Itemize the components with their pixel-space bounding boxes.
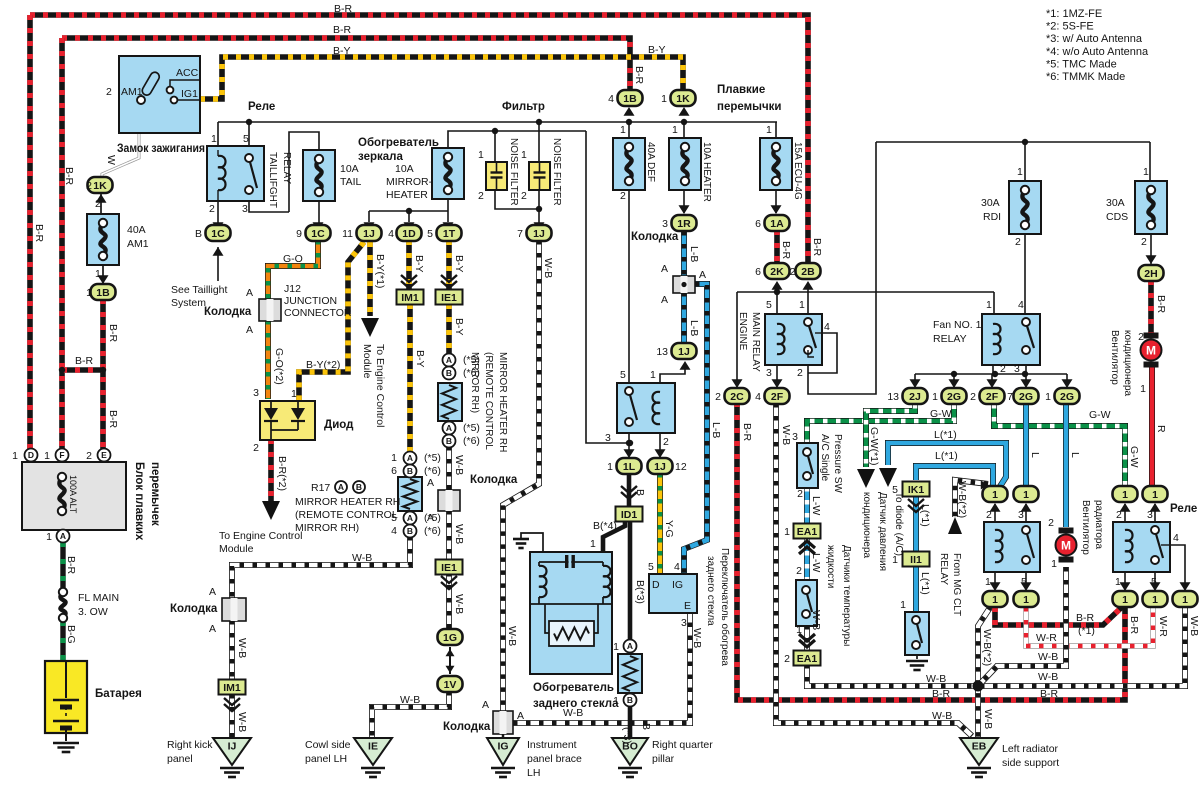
svg-text:Блок плавких: Блок плавких [133, 462, 145, 541]
svg-text:W-B(*2): W-B(*2) [956, 481, 968, 518]
svg-text:M: M [1061, 539, 1071, 553]
svg-text:1J: 1J [363, 228, 375, 240]
svg-text:3: 3 [253, 387, 259, 399]
svg-text:1: 1 [1023, 594, 1029, 606]
svg-text:Диод: Диод [324, 419, 354, 431]
svg-text:(REMOTE CONTROL: (REMOTE CONTROL [483, 352, 494, 450]
svg-text:4: 4 [608, 93, 614, 105]
svg-text:B-R: B-R [811, 238, 823, 257]
svg-text:JUNCTION: JUNCTION [284, 295, 337, 307]
svg-text:To Engine Control: To Engine Control [374, 344, 386, 427]
svg-text:B: B [195, 228, 202, 240]
svg-text:IG: IG [672, 579, 683, 591]
svg-text:4: 4 [674, 561, 680, 573]
svg-text:1: 1 [95, 268, 101, 280]
svg-text:2F: 2F [771, 391, 784, 403]
svg-text:TAIL: TAIL [340, 176, 362, 188]
svg-text:Реле: Реле [248, 101, 275, 113]
svg-text:A: A [661, 263, 668, 275]
svg-text:B-R: B-R [1076, 612, 1095, 624]
svg-text:1: 1 [932, 391, 938, 403]
svg-text:W-B: W-B [691, 628, 703, 648]
svg-text:2: 2 [797, 367, 803, 379]
svg-text:1: 1 [44, 450, 50, 462]
svg-text:2: 2 [478, 190, 484, 202]
svg-text:1: 1 [86, 287, 92, 299]
svg-text:II1: II1 [910, 554, 922, 566]
svg-text:W-B: W-B [780, 425, 792, 445]
svg-text:A: A [661, 294, 668, 306]
svg-text:A: A [482, 699, 489, 711]
svg-text:4: 4 [824, 321, 830, 333]
svg-text:3: 3 [1018, 509, 1024, 521]
svg-text:MIRROR HEATER RH: MIRROR HEATER RH [295, 496, 400, 508]
svg-text:2: 2 [796, 565, 802, 577]
svg-text:B-R: B-R [780, 241, 792, 260]
svg-text:2: 2 [95, 198, 101, 210]
svg-text:B-R: B-R [75, 355, 94, 367]
svg-text:*2: 5S-FE: *2: 5S-FE [1046, 21, 1094, 33]
svg-text:радиатора: радиатора [1093, 500, 1104, 549]
svg-text:5: 5 [1151, 576, 1157, 588]
svg-text:5: 5 [766, 299, 772, 311]
svg-text:A: A [246, 324, 253, 336]
svg-text:2B: 2B [801, 266, 815, 278]
svg-text:4: 4 [1018, 299, 1024, 311]
svg-text:B-Y: B-Y [453, 318, 465, 336]
svg-text:B: B [446, 436, 452, 446]
svg-text:G-O(*2): G-O(*2) [273, 348, 285, 385]
svg-text:W: W [105, 155, 117, 165]
svg-text:2K: 2K [770, 266, 784, 278]
svg-text:W-B: W-B [1038, 651, 1058, 663]
svg-text:AM1: AM1 [127, 238, 149, 250]
svg-text:R17: R17 [311, 482, 330, 494]
svg-text:перемычки: перемычки [717, 101, 781, 113]
svg-text:B-Y: B-Y [413, 255, 425, 273]
svg-text:MAIN RELAY: MAIN RELAY [750, 312, 761, 372]
svg-text:L-W: L-W [810, 553, 822, 572]
svg-text:(REMOTE CONTROL: (REMOTE CONTROL [295, 509, 398, 521]
svg-text:(*5): (*5) [463, 422, 480, 434]
svg-text:IG: IG [497, 741, 508, 753]
svg-text:кондиционера: кондиционера [1122, 330, 1133, 397]
svg-text:W-B: W-B [1038, 671, 1058, 683]
svg-text:W-R: W-R [1157, 616, 1169, 637]
svg-text:5: 5 [427, 228, 433, 240]
svg-text:B-R: B-R [33, 224, 45, 243]
svg-text:10A HEATER: 10A HEATER [701, 142, 712, 202]
svg-text:A: A [427, 512, 434, 524]
svg-text:1: 1 [784, 526, 790, 538]
svg-text:3: 3 [1147, 509, 1153, 521]
svg-text:2G: 2G [1019, 391, 1033, 403]
svg-text:B-R: B-R [932, 688, 951, 700]
svg-text:1D: 1D [402, 228, 416, 240]
svg-text:B(*3): B(*3) [634, 580, 646, 604]
svg-text:W-B: W-B [352, 552, 372, 564]
svg-text:A: A [209, 586, 216, 598]
svg-text:W-B(*2): W-B(*2) [981, 629, 993, 666]
svg-text:G-W: G-W [1089, 409, 1111, 421]
svg-text:Pressure SW: Pressure SW [832, 434, 843, 493]
svg-text:B-R: B-R [1128, 616, 1140, 635]
svg-text:1: 1 [590, 538, 596, 550]
svg-text:Вентилятор: Вентилятор [1080, 500, 1091, 555]
svg-text:2J: 2J [909, 391, 921, 403]
svg-text:B: B [446, 368, 452, 378]
svg-text:6: 6 [391, 465, 397, 477]
svg-text:(*5): (*5) [424, 452, 441, 464]
svg-text:3: 3 [681, 617, 687, 629]
svg-text:4: 4 [388, 228, 394, 240]
svg-text:2: 2 [1048, 517, 1054, 529]
svg-text:A: A [407, 513, 413, 523]
svg-text:W-B: W-B [926, 673, 946, 685]
svg-text:Колодка: Колодка [443, 721, 491, 733]
svg-text:1: 1 [900, 599, 906, 611]
svg-text:B-R(*2): B-R(*2) [276, 456, 288, 491]
svg-text:B-R: B-R [1040, 688, 1059, 700]
svg-text:(*6): (*6) [424, 525, 441, 537]
svg-text:B-Y: B-Y [333, 45, 351, 57]
svg-text:2G: 2G [1060, 391, 1074, 403]
svg-text:1C: 1C [211, 228, 225, 240]
svg-text:G-W(*1): G-W(*1) [868, 427, 880, 466]
svg-text:5: 5 [620, 369, 626, 381]
svg-text:W-B: W-B [236, 712, 248, 732]
svg-text:1: 1 [1122, 594, 1128, 606]
svg-text:D: D [652, 579, 660, 591]
svg-text:A: A [246, 287, 253, 299]
svg-text:RELAY: RELAY [933, 333, 967, 345]
svg-text:1J: 1J [533, 228, 545, 240]
svg-text:E: E [101, 450, 107, 460]
svg-text:1: 1 [766, 124, 772, 136]
svg-text:3: 3 [1014, 363, 1020, 375]
svg-text:ID1: ID1 [621, 509, 638, 521]
svg-text:1: 1 [478, 149, 484, 161]
svg-text:MIRROR RH): MIRROR RH) [469, 352, 480, 413]
svg-text:2: 2 [521, 190, 527, 202]
svg-text:NOISE FILTER: NOISE FILTER [551, 138, 562, 206]
svg-text:2C: 2C [730, 391, 744, 403]
svg-text:IE1: IE1 [441, 562, 457, 574]
svg-text:1L: 1L [623, 461, 636, 473]
svg-text:Реле: Реле [1170, 503, 1197, 515]
svg-text:2: 2 [209, 203, 215, 215]
svg-text:IM1: IM1 [223, 682, 241, 694]
svg-text:2: 2 [1000, 363, 1006, 375]
svg-text:5: 5 [648, 561, 654, 573]
svg-text:2: 2 [1141, 236, 1147, 248]
svg-text:B-Y: B-Y [414, 350, 426, 368]
svg-text:W-B: W-B [236, 638, 248, 658]
svg-text:100A ALT: 100A ALT [68, 475, 78, 514]
svg-text:B-R: B-R [107, 324, 119, 343]
svg-text:1: 1 [1023, 489, 1029, 501]
svg-text:M: M [1146, 344, 1156, 358]
svg-text:7: 7 [517, 228, 523, 240]
svg-text:IE1: IE1 [441, 292, 457, 304]
svg-text:1T: 1T [443, 228, 456, 240]
svg-text:Колодка: Колодка [631, 231, 679, 243]
svg-text:L(*1): L(*1) [935, 450, 958, 462]
svg-text:2: 2 [797, 488, 803, 500]
svg-text:L(*1): L(*1) [919, 572, 931, 595]
svg-text:IM1: IM1 [401, 292, 419, 304]
svg-text:13: 13 [887, 391, 899, 403]
svg-text:Module: Module [361, 344, 373, 379]
svg-text:CDS: CDS [1106, 211, 1128, 223]
svg-text:7: 7 [1007, 391, 1013, 403]
svg-text:Переключатель обогрева: Переключатель обогрева [719, 548, 731, 666]
svg-text:1: 1 [661, 93, 667, 105]
svg-text:*1: 1MZ-FE: *1: 1MZ-FE [1046, 8, 1102, 20]
svg-text:2: 2 [253, 442, 259, 454]
svg-text:1R: 1R [677, 218, 691, 230]
svg-text:2: 2 [1015, 236, 1021, 248]
svg-text:1: 1 [1152, 489, 1158, 501]
svg-text:1G: 1G [443, 632, 457, 644]
svg-text:J12: J12 [284, 283, 301, 295]
svg-text:B-R: B-R [633, 66, 645, 85]
svg-text:W-B: W-B [506, 626, 518, 646]
svg-text:1: 1 [1115, 576, 1121, 588]
svg-text:Right quarter: Right quarter [652, 739, 713, 751]
svg-text:3: 3 [242, 203, 248, 215]
svg-text:*3: w/ Auto Antenna: *3: w/ Auto Antenna [1046, 33, 1143, 45]
svg-text:3: 3 [605, 432, 611, 444]
svg-text:2H: 2H [1144, 268, 1157, 280]
svg-text:Колодка: Колодка [470, 474, 518, 486]
svg-text:перемычек: перемычек [149, 462, 161, 526]
svg-text:40A DEF: 40A DEF [645, 142, 656, 182]
svg-text:2: 2 [663, 436, 669, 448]
svg-text:1: 1 [620, 124, 626, 136]
svg-text:B-Y: B-Y [453, 255, 465, 273]
svg-text:A: A [699, 269, 706, 281]
svg-text:1C: 1C [311, 228, 325, 240]
svg-text:A: A [60, 531, 66, 541]
svg-text:L-W: L-W [810, 496, 822, 515]
svg-text:40A: 40A [127, 224, 146, 236]
svg-text:MIRROR HEATER RH: MIRROR HEATER RH [497, 352, 508, 452]
svg-text:11: 11 [342, 228, 353, 240]
svg-text:1: 1 [985, 576, 991, 588]
svg-text:To diode (A/C): To diode (A/C) [893, 492, 904, 556]
svg-text:A/C Single: A/C Single [819, 434, 830, 482]
svg-text:2F: 2F [986, 391, 999, 403]
svg-text:ENGINE: ENGINE [737, 312, 748, 351]
svg-text:EB: EB [972, 741, 987, 753]
svg-text:1: 1 [796, 624, 802, 636]
svg-text:Плавкие: Плавкие [717, 84, 765, 96]
svg-text:*6: TMMK Made: *6: TMMK Made [1046, 71, 1125, 83]
svg-text:TAILLIFGHT: TAILLIFGHT [267, 152, 278, 208]
svg-text:To Engine Control: To Engine Control [219, 530, 302, 542]
svg-text:2: 2 [1138, 331, 1144, 343]
svg-text:30A: 30A [981, 197, 1000, 209]
svg-text:Y-G: Y-G [663, 520, 675, 538]
svg-text:A: A [517, 710, 524, 722]
svg-text:R: R [1155, 425, 1167, 433]
svg-text:L(*1): L(*1) [919, 504, 931, 527]
svg-text:B-R: B-R [334, 3, 353, 15]
svg-text:Fan NO. 1: Fan NO. 1 [933, 319, 982, 331]
svg-text:Right kick: Right kick [167, 739, 213, 751]
svg-text:B: B [640, 723, 652, 730]
svg-text:E: E [684, 600, 691, 612]
svg-text:A: A [338, 482, 344, 492]
svg-text:1J: 1J [678, 346, 690, 358]
svg-text:1V: 1V [444, 679, 457, 691]
svg-text:See Taillight: See Taillight [171, 284, 228, 296]
svg-text:From MG CLT: From MG CLT [951, 553, 962, 616]
svg-text:A: A [627, 641, 633, 651]
svg-text:Instrument: Instrument [527, 739, 577, 751]
svg-text:A: A [446, 423, 452, 433]
svg-text:(*6): (*6) [424, 465, 441, 477]
svg-text:5: 5 [1021, 576, 1027, 588]
svg-text:W-B: W-B [453, 594, 465, 614]
svg-text:1: 1 [12, 450, 18, 462]
svg-text:5: 5 [243, 133, 249, 145]
svg-text:pillar: pillar [652, 753, 675, 765]
svg-text:B-R: B-R [741, 423, 753, 442]
svg-text:*4: w/o Auto Antenna: *4: w/o Auto Antenna [1046, 46, 1149, 58]
svg-text:W-B: W-B [563, 707, 583, 719]
svg-text:W-B: W-B [542, 258, 554, 278]
svg-text:B-G: B-G [65, 625, 77, 644]
svg-text:System: System [171, 297, 206, 309]
svg-text:L-B: L-B [710, 422, 722, 438]
svg-text:2: 2 [986, 509, 992, 521]
svg-text:2: 2 [86, 180, 92, 192]
svg-text:2G: 2G [947, 391, 961, 403]
svg-text:13: 13 [656, 346, 668, 358]
svg-text:1: 1 [613, 641, 619, 653]
svg-text:1: 1 [1140, 383, 1146, 395]
svg-text:Датчик давления: Датчик давления [877, 492, 888, 571]
svg-text:10A: 10A [395, 163, 414, 175]
svg-text:CONNECTOR: CONNECTOR [284, 307, 352, 319]
svg-text:2: 2 [784, 653, 790, 665]
svg-text:Колодка: Колодка [170, 603, 218, 615]
svg-text:B: B [356, 482, 362, 492]
svg-text:1: 1 [1152, 594, 1158, 606]
svg-text:1: 1 [672, 124, 678, 136]
svg-text:15A ECU-4G: 15A ECU-4G [792, 142, 803, 200]
svg-text:1: 1 [391, 452, 397, 464]
svg-text:1: 1 [1182, 594, 1188, 606]
svg-text:B-Y(*1): B-Y(*1) [374, 254, 386, 288]
svg-text:W-B: W-B [810, 610, 822, 630]
svg-text:(*1): (*1) [1078, 625, 1095, 637]
svg-text:Обогреватель: Обогреватель [533, 682, 614, 694]
svg-text:W-B: W-B [453, 524, 465, 544]
svg-text:4: 4 [1173, 532, 1179, 544]
svg-text:Cowl side: Cowl side [305, 739, 351, 751]
svg-text:1: 1 [613, 695, 619, 707]
svg-text:Обогреватель: Обогреватель [358, 137, 439, 149]
svg-text:1A: 1A [770, 218, 784, 230]
svg-text:B(*4): B(*4) [593, 520, 617, 532]
svg-text:1: 1 [992, 489, 998, 501]
svg-text:1: 1 [650, 369, 656, 381]
svg-text:W-B: W-B [982, 709, 994, 729]
svg-text:IE: IE [368, 741, 378, 753]
svg-text:RELAY: RELAY [938, 553, 949, 585]
svg-text:B-Y: B-Y [648, 44, 666, 56]
svg-text:6: 6 [755, 218, 761, 230]
svg-text:Батарея: Батарея [95, 688, 142, 700]
svg-text:IG1: IG1 [181, 88, 198, 100]
svg-text:panel LH: panel LH [305, 753, 347, 765]
svg-text:1: 1 [799, 299, 805, 311]
svg-text:Колодка: Колодка [204, 306, 252, 318]
svg-text:30A: 30A [1106, 197, 1125, 209]
svg-text:1B: 1B [96, 287, 110, 299]
svg-text:B-R: B-R [1155, 295, 1167, 314]
svg-text:1: 1 [521, 149, 527, 161]
svg-text:F: F [59, 450, 64, 460]
svg-text:IK1: IK1 [908, 484, 925, 496]
svg-text:*5: TMC Made: *5: TMC Made [1046, 58, 1117, 70]
svg-text:Вентилятор: Вентилятор [1109, 330, 1120, 385]
svg-text:A: A [446, 355, 452, 365]
svg-text:Фильтр: Фильтр [502, 101, 545, 113]
svg-text:MIRROR-: MIRROR- [386, 176, 433, 188]
svg-text:2: 2 [1116, 509, 1122, 521]
svg-text:A: A [209, 623, 216, 635]
svg-text:3: 3 [662, 218, 668, 230]
svg-text:L(*1): L(*1) [934, 429, 957, 441]
svg-text:W-B: W-B [453, 455, 465, 475]
svg-text:1K: 1K [93, 180, 107, 192]
svg-text:кондиционера: кондиционера [861, 492, 872, 559]
svg-text:G-W: G-W [930, 408, 952, 420]
svg-text:L: L [1029, 452, 1041, 458]
svg-text:Датчики температуры: Датчики температуры [841, 545, 852, 646]
svg-text:side support: side support [1002, 757, 1059, 769]
svg-text:(*3): (*3) [621, 727, 633, 744]
svg-text:B-R: B-R [65, 556, 77, 575]
svg-text:L-B: L-B [688, 320, 700, 336]
svg-text:2: 2 [715, 391, 721, 403]
svg-text:B-R: B-R [63, 167, 75, 186]
svg-text:MIRROR RH): MIRROR RH) [295, 522, 359, 534]
svg-text:6: 6 [755, 266, 761, 278]
svg-text:panel brace: panel brace [527, 753, 582, 765]
svg-text:2: 2 [106, 86, 112, 98]
svg-text:3: 3 [792, 431, 798, 443]
svg-text:RELAY: RELAY [281, 152, 292, 184]
svg-text:2: 2 [620, 190, 626, 202]
svg-text:G-W: G-W [1128, 446, 1140, 468]
svg-text:заднего стекла: заднего стекла [705, 556, 716, 626]
svg-text:12: 12 [675, 461, 687, 473]
svg-text:2: 2 [790, 266, 796, 278]
svg-text:NOISE FILTER: NOISE FILTER [508, 138, 519, 206]
svg-text:Module: Module [219, 543, 254, 555]
svg-text:1: 1 [291, 388, 297, 400]
svg-text:4: 4 [391, 525, 397, 537]
svg-text:10A: 10A [340, 163, 359, 175]
svg-text:L: L [1069, 452, 1081, 458]
svg-text:Замок зажигания: Замок зажигания [117, 143, 205, 155]
svg-text:RDI: RDI [983, 211, 1001, 223]
